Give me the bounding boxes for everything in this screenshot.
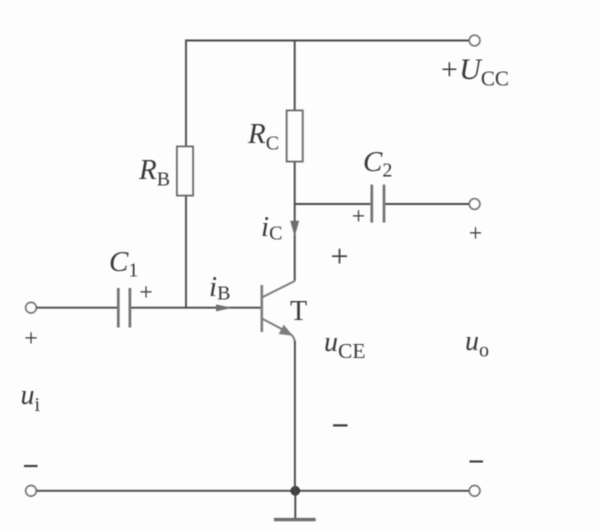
label +UCC [439, 53, 509, 91]
resistor RC [287, 111, 303, 162]
svg-text:RB: RB [138, 154, 170, 191]
svg-text:uCE: uCE [324, 327, 365, 363]
wire emitter to ground rail [294, 341, 296, 491]
terminal +UCC [469, 35, 480, 46]
svg-text:ui: ui [21, 380, 41, 416]
ground [274, 491, 316, 520]
label minus input [24, 465, 38, 467]
label iB [209, 271, 230, 305]
label RB [138, 154, 170, 191]
svg-text:+: + [330, 238, 348, 274]
svg-text:+: + [24, 326, 38, 352]
wire top supply rail [186, 40, 469, 42]
arrow iC [290, 221, 299, 237]
svg-text:+: + [469, 221, 483, 247]
svg-text:T: T [290, 296, 307, 327]
label RC [247, 118, 279, 155]
label T [290, 296, 307, 327]
resistor RB [177, 147, 193, 196]
label minus uCE [333, 424, 348, 426]
wire C2 left [295, 203, 371, 205]
wire C2 right [385, 203, 469, 205]
capacitor C1 [118, 288, 130, 328]
wire bottom rail [36, 490, 469, 492]
svg-text:+: + [139, 280, 153, 306]
svg-text:uo: uo [465, 326, 489, 362]
junction dot emitter-ground [290, 486, 300, 496]
arrow iB [216, 304, 232, 311]
terminal input top [26, 302, 37, 313]
label iC [261, 211, 282, 245]
terminal input bottom [26, 486, 37, 497]
transistor T [262, 281, 295, 343]
wire RB branch upper [185, 40, 187, 147]
svg-text:+: + [352, 204, 366, 230]
terminal output bottom [469, 486, 480, 497]
wire RB branch lower [185, 196, 187, 309]
label plus output [469, 221, 483, 247]
svg-text:iB: iB [209, 271, 230, 305]
label plus uCE [330, 238, 348, 274]
label C2 [363, 146, 392, 182]
label plus input [24, 326, 38, 352]
svg-text:iC: iC [261, 211, 282, 245]
svg-text:+UCC: +UCC [439, 53, 509, 91]
label plus at C2 [352, 204, 366, 230]
label plus at C1 [139, 280, 153, 306]
wire input to C1 [36, 307, 117, 309]
svg-text:RC: RC [247, 118, 279, 155]
capacitor C2 [372, 185, 384, 223]
label C1 [109, 246, 138, 282]
terminal output top [469, 199, 480, 210]
label ui [21, 380, 41, 416]
svg-text:C2: C2 [363, 146, 392, 182]
label uCE [324, 327, 365, 363]
wire collector branch [294, 162, 296, 281]
svg-text:C1: C1 [109, 246, 138, 282]
wire RC branch upper [294, 40, 296, 111]
wire base [131, 307, 261, 309]
label uo [465, 326, 489, 362]
label minus output [470, 460, 484, 462]
